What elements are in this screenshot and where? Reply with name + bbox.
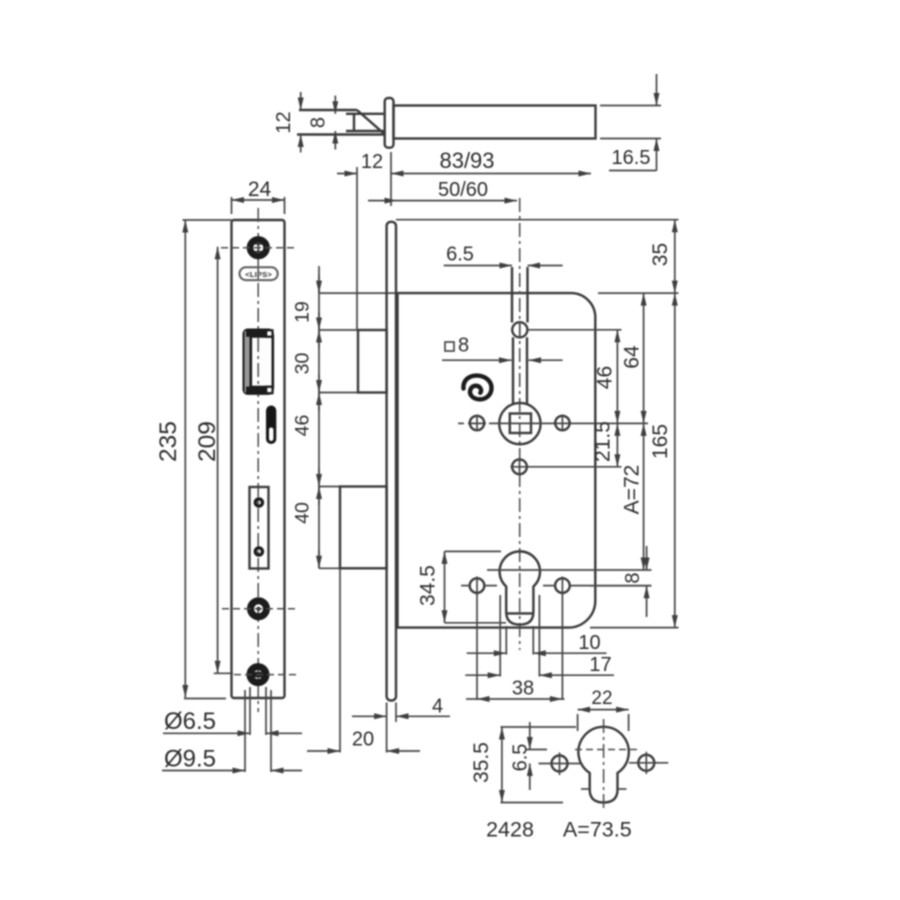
dimension 21.5 xyxy=(592,421,618,467)
left view: deadbolt opening xyxy=(250,487,269,569)
svg-text:A=73.5: A=73.5 xyxy=(563,818,632,842)
left view: plate top extension line xyxy=(183,219,232,221)
dimension 10 xyxy=(467,632,607,654)
main view: deadbolt front xyxy=(340,487,387,569)
svg-text:4: 4 xyxy=(432,696,443,718)
main view: hole above slot bottom xyxy=(512,322,527,337)
extension lines below cylinder xyxy=(477,593,562,700)
main view: follower circle xyxy=(499,403,540,444)
dimension 8 vertical (latch body height) xyxy=(307,96,335,150)
detail view: euro cylinder profile xyxy=(578,727,628,803)
svg-text:6.5: 6.5 xyxy=(510,744,532,772)
main view: reference line at forend top xyxy=(396,219,679,221)
svg-text:20: 20 xyxy=(352,729,374,751)
dimension 12 horizontal + 83/93 dim line xyxy=(337,148,591,329)
dimension 6.5 (slot width) xyxy=(444,244,563,266)
left view: top screw hole xyxy=(221,239,296,256)
dimension 8 (cylinder to screw) xyxy=(590,546,652,617)
main view: case top extension line xyxy=(598,292,679,294)
detail view: vertical centerline xyxy=(603,719,605,811)
svg-text:Ø6.5: Ø6.5 xyxy=(164,708,216,735)
svg-text:6.5: 6.5 xyxy=(446,244,474,266)
svg-text:12: 12 xyxy=(361,151,383,173)
left view: vertical centerline xyxy=(257,208,259,712)
dimension 64 xyxy=(621,293,644,423)
top side view: faceplate bar xyxy=(385,98,394,148)
main view: follower square xyxy=(510,414,531,434)
dimension 46 (right) xyxy=(593,330,617,424)
main view: case bottom extension line xyxy=(590,627,679,629)
dimension 235 (plate length) xyxy=(155,220,226,699)
main view: vertical centerline xyxy=(519,198,521,650)
svg-text:12: 12 xyxy=(273,111,295,133)
main view: cylinder screw left xyxy=(461,577,497,596)
svg-text:83/93: 83/93 xyxy=(439,148,494,173)
dimension A=72 xyxy=(621,423,644,570)
svg-text:209: 209 xyxy=(194,421,221,462)
main view: screw post left of follower xyxy=(470,416,484,430)
svg-text:21.5: 21.5 xyxy=(592,421,615,462)
detail view: screw left xyxy=(539,753,581,776)
svg-text:165: 165 xyxy=(649,424,672,459)
dimension square-8 (follower) xyxy=(442,335,563,361)
svg-text:64: 64 xyxy=(621,345,644,369)
svg-text:34.5: 34.5 xyxy=(416,565,439,606)
svg-text:19: 19 xyxy=(292,301,314,323)
main view: spring symbol xyxy=(463,376,491,400)
main view: cylinder screw right xyxy=(543,577,652,596)
svg-text:40: 40 xyxy=(292,502,314,524)
dimension Ø6.5 xyxy=(163,687,302,735)
main view: lock case outline xyxy=(398,293,596,627)
top side view: latch bolt wedge xyxy=(297,110,385,135)
svg-text:38: 38 xyxy=(512,678,534,700)
dimension 22 (cylinder width) xyxy=(578,688,629,731)
svg-text:8: 8 xyxy=(307,117,329,128)
svg-text:24: 24 xyxy=(248,178,272,201)
detail view: horizontal centerline xyxy=(575,749,639,751)
main view: faceplate bar xyxy=(387,222,396,701)
svg-text:<LIPS>: <LIPS> xyxy=(245,270,272,279)
svg-text:22: 22 xyxy=(591,688,612,709)
svg-text:10: 10 xyxy=(578,632,600,654)
dimension 12 vertical (latch height) xyxy=(273,92,301,153)
main view: cylinder horizontal centerline xyxy=(487,569,652,571)
dimension 20 (deadbolt throw) xyxy=(307,569,420,752)
dimension 165 xyxy=(649,293,675,627)
detail view: screw right xyxy=(629,752,668,774)
dimension 24 (plate width) xyxy=(232,178,285,214)
tick at hole above follower xyxy=(528,329,622,331)
dimension 35.5 xyxy=(470,727,576,803)
svg-text:35.5: 35.5 xyxy=(470,742,493,783)
svg-text:50/60: 50/60 xyxy=(438,179,488,201)
dimension 17 xyxy=(465,654,614,676)
dimension 35 xyxy=(649,220,675,293)
main view: follower horizontal centerline xyxy=(458,422,648,424)
svg-text:Ø9.5: Ø9.5 xyxy=(164,746,216,773)
chain dimensions 19/30/46/40 xyxy=(292,266,395,568)
dimension 16.5 (case height) xyxy=(600,74,661,171)
dimension 4 (faceplate thickness) xyxy=(352,696,450,723)
main view: latch bolt front xyxy=(358,330,387,393)
left view: LIPS logo oval xyxy=(240,267,278,280)
svg-text:16.5: 16.5 xyxy=(612,147,651,169)
dimension Ø9.5 xyxy=(162,690,302,773)
main view: euro cylinder profile xyxy=(500,551,540,624)
dimension 209 (screw hole spacing) xyxy=(194,247,233,674)
svg-text:17: 17 xyxy=(589,654,611,676)
dimension 38 xyxy=(466,678,565,700)
svg-text:35: 35 xyxy=(649,243,672,266)
main view: hole below follower xyxy=(511,458,622,476)
top side view: lock case body xyxy=(394,106,596,139)
left view: bottom screw hole xyxy=(234,667,300,683)
left view: latch bolt opening xyxy=(244,330,273,393)
main view: screw post right of follower xyxy=(555,416,569,430)
svg-text:8: 8 xyxy=(458,335,469,357)
left view: middle screw hole xyxy=(222,601,296,617)
svg-text:46: 46 xyxy=(593,366,616,389)
main view: spindle slot lines xyxy=(513,337,527,403)
dimension 34.5 (cylinder hole height) xyxy=(416,551,506,622)
dimension 50/60 (backset) xyxy=(368,179,517,201)
svg-text:A=72: A=72 xyxy=(621,465,644,515)
left view: faceplate plate outline xyxy=(232,220,285,698)
svg-text:2428: 2428 xyxy=(486,818,534,842)
dimension 6.5 (detail) xyxy=(510,722,547,790)
left view: adjusting slot xyxy=(266,406,276,445)
svg-text:30: 30 xyxy=(292,353,314,375)
svg-text:8: 8 xyxy=(622,572,644,583)
svg-text:46: 46 xyxy=(292,415,314,437)
main view: top slot lines xyxy=(512,267,528,323)
svg-text:235: 235 xyxy=(155,421,182,462)
